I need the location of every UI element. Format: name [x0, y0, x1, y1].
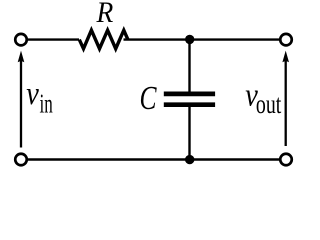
terminal: input top (open circle)	[15, 34, 27, 46]
wire: top-middle (resistor to output terminal)	[124, 38, 281, 40]
node: top junction	[185, 35, 194, 44]
terminal: output top (open circle)	[280, 34, 292, 46]
capacitor C	[164, 94, 215, 105]
wire: capacitor top lead	[188, 40, 190, 92]
wire: bottom rail	[27, 158, 281, 160]
wire: capacitor bottom lead	[188, 107, 190, 160]
terminal: input bottom (open circle)	[15, 154, 27, 166]
arrow: v_out reference (pointing up)	[282, 51, 289, 146]
svg-text:in: in	[40, 89, 54, 119]
resistor R	[79, 30, 128, 49]
label v_in	[26, 76, 53, 119]
svg-text:out: out	[256, 89, 282, 119]
arrow: v_in reference (pointing up)	[18, 51, 25, 148]
wire: top-left (input terminal to resistor)	[27, 38, 80, 40]
svg-text:C: C	[140, 80, 157, 117]
svg-text:R: R	[96, 0, 114, 29]
node: bottom junction	[185, 155, 194, 164]
terminal: output bottom (open circle)	[280, 154, 292, 166]
label v_out	[245, 78, 281, 120]
svg-text:v: v	[26, 76, 39, 112]
